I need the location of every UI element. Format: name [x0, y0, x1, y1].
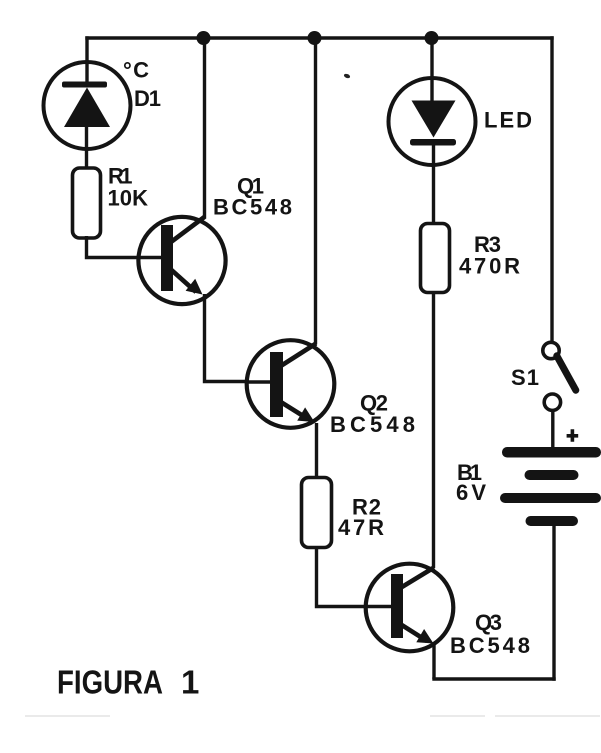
wire Q3 emitter down	[432, 645, 435, 679]
scan speck	[343, 73, 350, 79]
svg-text:FIGURA: FIGURA	[57, 664, 163, 701]
wire Q1 emitter to Q2 base	[205, 294, 272, 382]
resistor R2	[302, 478, 332, 548]
transistor Q2	[245, 340, 334, 428]
svg-text:Q3: Q3	[475, 610, 502, 635]
resistor R3	[421, 224, 450, 293]
svg-text:LED: LED	[484, 108, 532, 133]
battery B1	[500, 447, 601, 526]
wire Q2 collector rail	[314, 36, 317, 344]
wire battery minus riser	[552, 525, 555, 681]
transistor Q3	[364, 564, 453, 652]
wire S1 to battery plus	[551, 412, 554, 448]
scan artifact bottom dashes	[25, 715, 600, 717]
svg-text:BC548: BC548	[450, 633, 530, 658]
svg-text:6V: 6V	[456, 480, 486, 505]
svg-text:S1: S1	[511, 365, 539, 390]
diode D1	[44, 36, 131, 169]
wire bottom rail	[432, 677, 555, 680]
svg-text:470R: 470R	[459, 254, 520, 279]
svg-text:47R: 47R	[338, 515, 384, 540]
svg-text:BC548: BC548	[213, 195, 292, 220]
wire right rail	[550, 36, 553, 341]
wire Q1 collector rail	[203, 36, 206, 218]
svg-text:1: 1	[181, 664, 199, 701]
node B (junction dot Q2 rail)	[308, 31, 322, 45]
svg-text:°C: °C	[123, 58, 149, 83]
wire R1 to Q1 base	[87, 236, 163, 258]
wire top rail	[85, 36, 553, 39]
wire R2 to Q3 base	[317, 546, 393, 607]
switch S1	[543, 342, 576, 410]
LED	[389, 36, 476, 224]
transistor Q1	[137, 217, 226, 305]
wire R3 to Q3 collector	[432, 291, 435, 568]
node C (junction dot LED rail)	[425, 31, 439, 45]
svg-text:D1: D1	[134, 86, 161, 111]
plus sign	[567, 429, 579, 442]
svg-text:BC548: BC548	[330, 412, 415, 437]
resistor R1	[73, 168, 101, 238]
wire Q2 emitter to R2	[315, 423, 318, 478]
node A (junction dot Q1 rail)	[197, 31, 211, 45]
svg-text:10K: 10K	[108, 186, 149, 211]
